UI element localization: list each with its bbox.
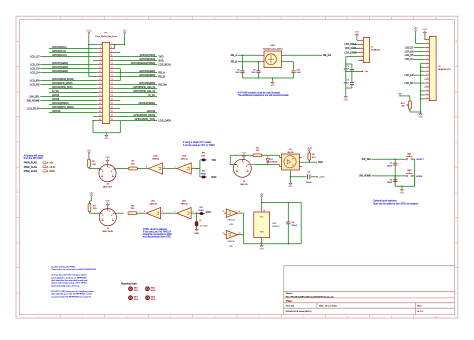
- inverter U1B 74HC14: [148, 163, 162, 174]
- resistor R6 220: [128, 212, 137, 215]
- wire P1 left row pin 31 net GPIO13(PWM1): [49, 104, 97, 106]
- svg-text:13: 13: [426, 86, 428, 88]
- jumper JP1 OUT: [202, 159, 206, 161]
- svg-text:100uF: 100uF: [344, 69, 350, 71]
- svg-text:GND: GND: [288, 186, 293, 188]
- connector J7 body: [363, 37, 369, 62]
- connector J2 pin stubs: [424, 38, 429, 99]
- svg-text:4: 4: [246, 166, 247, 168]
- wire P1 left row pin 11 net GPIO17(GEN0): [40, 64, 97, 66]
- svg-text:GPIO8(SPI0_CE0_N): GPIO8(SPI0_CE0_N): [133, 86, 155, 89]
- svg-text:HD44780 LCD: HD44780 LCD: [438, 69, 451, 71]
- resistor R3 220: [253, 154, 262, 157]
- svg-text:14: 14: [111, 67, 113, 69]
- svg-text:GPIO9(SPI0_MISO): GPIO9(SPI0_MISO): [52, 82, 73, 85]
- ground below U1G: [259, 244, 264, 251]
- svg-text:3: 3: [361, 47, 362, 49]
- connector J2 HD44780 body: [429, 36, 436, 100]
- svg-text:4: 4: [361, 51, 362, 53]
- ground below switches: [400, 188, 405, 195]
- wire R7 to MIDI THRU: [90, 198, 92, 201]
- wire P1 left row pin 7 net GPIO4(GCLK): [40, 56, 97, 58]
- svg-text:7: 7: [263, 240, 264, 242]
- svg-text:5: 5: [100, 51, 101, 53]
- svg-text:23: 23: [99, 87, 101, 89]
- svg-text:14: 14: [263, 210, 265, 212]
- svg-text:GPIO2(SDA1): GPIO2(SDA1): [52, 46, 67, 49]
- wire JP3 down to R8: [196, 213, 198, 221]
- svg-text:If using a single OUT socket: If using a single OUT socket: [183, 141, 211, 144]
- capacitor C8 10nF: [242, 55, 243, 56]
- svg-text:Mounting holes: Mounting holes: [121, 283, 137, 286]
- svg-text:GPIO23(GEN4): GPIO23(GEN4): [139, 70, 155, 73]
- svg-text:RE_Sw: RE_Sw: [158, 83, 167, 86]
- mounting hole MK3: [146, 287, 150, 291]
- wire P1 left row pin 33 net GPIO19(SPI1_MISO): [40, 108, 97, 110]
- svg-text:74HC14: 74HC14: [272, 226, 280, 228]
- svg-text:6: 6: [111, 51, 112, 53]
- svg-text:5: 5: [427, 54, 428, 56]
- resistor R2 220: [128, 167, 137, 170]
- svg-text:LCD_RS: LCD_RS: [404, 83, 414, 85]
- svg-text:36: 36: [111, 111, 113, 113]
- svg-text:SW2: SW2: [407, 153, 411, 155]
- svg-text:40: 40: [111, 119, 113, 121]
- mounting hole MK2: [129, 296, 133, 300]
- svg-text:37: 37: [99, 115, 101, 117]
- svg-text:GND: GND: [104, 138, 109, 140]
- svg-text:GND: GND: [242, 153, 247, 155]
- svg-text:DO NOT USE these pins for anyt: DO NOT USE these pins for anything other…: [51, 290, 94, 293]
- svg-text:LDS_DATA: LDS_DATA: [158, 119, 171, 122]
- svg-text:17: 17: [99, 75, 101, 77]
- ground below SW1: [270, 81, 275, 88]
- svg-text:that identifies the attached b: that identifies the attached board and: [51, 279, 88, 282]
- svg-text:These pins are reserved for HA: These pins are reserved for HAT ID EEPRO…: [51, 268, 96, 271]
- optocoupler U2 6N138: [282, 154, 300, 170]
- svg-text:should be connected to GND: should be connected to GND: [143, 233, 172, 236]
- wire U1B to U1A: [165, 168, 175, 170]
- ground below P1: [104, 134, 109, 141]
- svg-text:74HC14: 74HC14: [180, 203, 188, 205]
- inverter U1F 74HC14 spare: [226, 230, 237, 239]
- svg-text:unconnected if ID EEPROM not r: unconnected if ID EEPROM not required: [51, 295, 91, 298]
- svg-text:100nF: 100nF: [387, 165, 393, 167]
- wire R6 to U1C: [137, 212, 144, 214]
- svg-text:6: 6: [361, 59, 362, 61]
- svg-text:GND: GND: [270, 85, 275, 87]
- svg-text:GPIO6: GPIO6: [52, 98, 60, 101]
- wire +5v to U1G and C4: [261, 198, 263, 208]
- svg-text:LCD_EN: LCD_EN: [404, 75, 413, 77]
- svg-text:RotaryEncoder_Switch: RotaryEncoder_Switch: [263, 47, 282, 50]
- wire R3 to opto input: [262, 154, 280, 156]
- svg-text:5: 5: [102, 171, 103, 173]
- wire +3v branch: [346, 70, 362, 72]
- wire RE_A to SW1: [238, 54, 262, 56]
- wire P1 left row pin 29 net GPIO6: [40, 100, 97, 102]
- svg-text:GPIO5: GPIO5: [52, 94, 60, 97]
- svg-text:GPIO21(SPI1_SCK): GPIO21(SPI1_SCK): [135, 118, 156, 121]
- svg-text:2: 2: [111, 43, 112, 45]
- svg-text:10k: 10k: [401, 106, 404, 108]
- inverter U1D 74HC14: [177, 208, 191, 219]
- wire P1 left row pin 27 net GPIO5: [40, 96, 97, 98]
- svg-text:5: 5: [162, 211, 163, 213]
- svg-text:U1G: U1G: [272, 223, 277, 225]
- svg-text:RE_B: RE_B: [158, 75, 165, 78]
- svg-text:4: 4: [111, 47, 112, 49]
- capacitor C1 100uF: [346, 63, 352, 65]
- svg-text:3: 3: [164, 166, 165, 168]
- ground rail for switches: [395, 185, 415, 187]
- svg-text:GPIO3(SCL1): GPIO3(SCL1): [52, 50, 66, 53]
- power +3.3v at R5: [306, 148, 313, 152]
- power +5v at J2: [414, 28, 419, 32]
- wire GND to J7 pin1: [356, 37, 358, 41]
- svg-text:74HC14: 74HC14: [227, 241, 235, 243]
- svg-text:1: 1: [112, 219, 113, 221]
- svg-text:LCD_D4: LCD_D4: [405, 59, 415, 61]
- svg-text:All power will come: All power will come: [24, 154, 44, 157]
- wire P1 left row pin 19 net GPIO10(SPI0_MOSI): [40, 80, 97, 82]
- wire P1 ground stubs left: [93, 60, 97, 62]
- svg-text:34: 34: [111, 107, 113, 109]
- svg-text:SW_SEL: SW_SEL: [362, 159, 372, 161]
- svg-text:TXD: TXD: [158, 55, 163, 58]
- wire +5v to J2 pin2: [415, 33, 417, 44]
- svg-text:100nF: 100nF: [306, 182, 312, 184]
- svg-text:LCD_RC14: LCD_RC14: [27, 107, 40, 110]
- svg-text:2: 2: [361, 43, 362, 45]
- wire SW3 to ground: [413, 175, 415, 177]
- svg-text:100nF: 100nF: [387, 182, 393, 184]
- wire P1 left row pin 23 net GPIO11(SPI0_SCK): [49, 88, 97, 90]
- ground below R8: [196, 226, 198, 229]
- svg-text:SELECT: SELECT: [416, 159, 425, 161]
- svg-text:74HC14: 74HC14: [227, 220, 235, 222]
- mounting hole MK1: [129, 287, 133, 291]
- wire U1A to TXD jumpers: [193, 168, 200, 170]
- wire P1 left row pin 15 net GPIO22(GEN3): [40, 72, 97, 74]
- svg-text:8: 8: [427, 66, 428, 68]
- svg-text:+3.3v: +3.3v: [306, 148, 313, 150]
- svg-text:28: 28: [111, 95, 113, 97]
- svg-text:SW_HOME: SW_HOME: [359, 176, 371, 178]
- svg-text:12: 12: [223, 211, 225, 213]
- svg-text:24: 24: [111, 87, 113, 89]
- wire GND to J2 pin1: [424, 34, 426, 40]
- svg-text:GPIO26: GPIO26: [52, 110, 61, 113]
- svg-text:LCD_D7: LCD_D7: [30, 55, 40, 58]
- wire MIDI IN pin to R3 top rail: [229, 155, 231, 164]
- svg-text:C2: C2: [346, 80, 348, 82]
- power +5v for R7: [89, 193, 94, 197]
- junction at JP3: [196, 213, 197, 214]
- svg-text:2: 2: [175, 166, 176, 168]
- mounting hole MK4: [146, 296, 150, 300]
- svg-text:RxD: RxD: [318, 161, 323, 164]
- resistor R1 220: [88, 159, 91, 167]
- svg-text:5: 5: [237, 166, 238, 168]
- diode D1 1N4148: [267, 155, 269, 159]
- title block: [284, 266, 455, 315]
- wire P1 ground stubs right: [115, 52, 121, 54]
- ground below J2: [418, 112, 423, 119]
- wire P1 left row pin 13 net GPIO27(GEN2): [40, 68, 97, 70]
- svg-text:THRU circuit is optional.: THRU circuit is optional.: [143, 228, 168, 231]
- wire spare gate outputs: [240, 212, 244, 214]
- svg-text:GPIO12(PWM0): GPIO12(PWM0): [138, 102, 155, 105]
- wire P1 right row pin 28 net ID_SC: [115, 96, 157, 98]
- svg-text:GND: GND: [343, 100, 348, 102]
- svg-text:100nF: 100nF: [292, 225, 298, 227]
- svg-text:RE_B: RE_B: [231, 61, 238, 64]
- svg-text:4: 4: [427, 50, 428, 52]
- svg-text:ID_SD: ID_SD: [52, 90, 59, 93]
- wire U1D to JP3: [193, 212, 198, 214]
- svg-text:LCD_RS: LCD_RS: [30, 83, 40, 86]
- svg-text:MIDI OUT: MIDI OUT: [103, 186, 113, 188]
- wire P1 right row pin 16 net GPIO23(GEN4): [115, 72, 157, 74]
- wire J7 power pin down: [346, 56, 359, 58]
- svg-text:ID_SC: ID_SC: [148, 94, 155, 97]
- svg-text:8: 8: [193, 211, 194, 213]
- svg-text:26: 26: [111, 91, 113, 93]
- svg-text:GPIO20(SPI1_MOSI): GPIO20(SPI1_MOSI): [133, 114, 155, 117]
- svg-text:KiCad E.D.A. kicad (4.0.5): KiCad E.D.A. kicad (4.0.5): [286, 310, 312, 313]
- svg-text:LCD_D6: LCD_D6: [405, 51, 415, 53]
- wire P1 left row pin 3 net GPIO2(SDA1): [49, 48, 97, 50]
- svg-text:5: 5: [103, 215, 104, 217]
- svg-text:21: 21: [99, 83, 101, 85]
- wire P1 left row pin 5 net GPIO3(SCL1): [49, 52, 97, 54]
- capacitor C2 100nF: [351, 71, 353, 82]
- power +3.3v right of C3: [316, 176, 317, 177]
- svg-text:GPIO4(GCLK): GPIO4(GCLK): [52, 54, 67, 57]
- wire SW2 to ground: [413, 158, 415, 160]
- svg-text:GPIO10(SPI0_MOSI): GPIO10(SPI0_MOSI): [52, 78, 74, 81]
- wire MIDI THRU to R6: [115, 212, 124, 214]
- resistor R8 1k: [195, 222, 198, 226]
- svg-text:9: 9: [100, 59, 101, 61]
- ground rail below SW1: [243, 77, 294, 79]
- svg-text:13: 13: [223, 233, 225, 235]
- wire P1 bottom ground loop: [92, 120, 93, 121]
- wire RV1 to ground rail: [409, 109, 411, 112]
- svg-text:30: 30: [111, 99, 113, 101]
- svg-text:74HC14: 74HC14: [180, 159, 188, 161]
- svg-text:GND: GND: [194, 233, 199, 235]
- svg-text:GND: GND: [49, 170, 55, 173]
- svg-text:4: 4: [111, 171, 112, 173]
- svg-text:A0 THRU: A0 THRU: [200, 225, 208, 228]
- svg-text:GPIO18(GEN1)(PWM0): GPIO18(GEN1)(PWM0): [131, 62, 155, 65]
- svg-text:16: 16: [111, 71, 113, 73]
- svg-text:11: 11: [99, 63, 101, 65]
- svg-text:GPIO27(GEN2): GPIO27(GEN2): [52, 66, 68, 69]
- svg-text:31: 31: [99, 103, 101, 105]
- wire R1 to MIDI OUT connector: [88, 155, 90, 159]
- inverter U1C 74HC14: [146, 208, 160, 219]
- jumper JP3 THRU: [200, 212, 204, 214]
- svg-text:PCM5102: PCM5102: [371, 50, 381, 52]
- svg-text:1k: 1k: [199, 220, 201, 222]
- svg-text:it can be used as OUT or THRU: it can be used as OUT or THRU: [183, 144, 215, 147]
- svg-text:U1B: U1B: [154, 156, 159, 158]
- power +5v for R1: [87, 151, 92, 155]
- svg-text:LCD_D6: LCD_D6: [30, 63, 40, 66]
- svg-text:LDS_BCLK: LDS_BCLK: [158, 63, 171, 66]
- svg-text:Date: 15 nov 2012: Date: 15 nov 2012: [319, 305, 338, 308]
- inverter U1E 74HC14 spare: [226, 209, 237, 218]
- wire R2 to U1B: [137, 168, 146, 170]
- svg-text:U1A: U1A: [182, 155, 187, 158]
- svg-text:74HC14: 74HC14: [149, 203, 157, 205]
- capacitor C6 100nF: [394, 176, 396, 180]
- svg-text:GPIO19(SPI1_MISO): GPIO19(SPI1_MISO): [52, 106, 74, 109]
- svg-text:LCD_D5: LCD_D5: [30, 67, 40, 70]
- svg-text:6: 6: [427, 58, 428, 60]
- svg-text:U1E: U1E: [229, 224, 234, 226]
- svg-text:13: 13: [99, 67, 101, 69]
- wire +5v rail right of P1: [124, 35, 126, 45]
- svg-text:RE_A: RE_A: [231, 54, 238, 57]
- svg-text:9: 9: [175, 211, 176, 213]
- svg-text:C1: C1: [346, 66, 348, 68]
- svg-text:GPIO25(GEN6): GPIO25(GEN6): [139, 82, 155, 85]
- resistor R7 220: [88, 203, 91, 211]
- svg-text:19: 19: [99, 79, 101, 81]
- wire P1 right row pin 22 net GPIO25(GEN6): [115, 84, 157, 86]
- svg-text:25: 25: [99, 91, 101, 93]
- svg-text:RXD: RXD: [206, 211, 211, 214]
- svg-text:32: 32: [111, 103, 113, 105]
- svg-text:GPIO7(SPI0_CE1_N): GPIO7(SPI0_CE1_N): [133, 90, 155, 93]
- svg-text:GPIO11(SPI0_SCK): GPIO11(SPI0_SCK): [52, 86, 73, 89]
- svg-text:16: 16: [426, 97, 428, 99]
- svg-text:Rev:: Rev:: [417, 306, 422, 308]
- wire P1 right row pin 38 net GPIO20(SPI1_MOSI): [115, 116, 157, 118]
- svg-text:(and optionally Linux drivers): (and optionally Linux drivers).: [51, 284, 80, 287]
- switch SW2 SELECT: [406, 158, 408, 160]
- svg-text:11: 11: [427, 78, 429, 80]
- wire P1 left row pin 25 net ID_SD: [49, 92, 97, 94]
- wire GND to MIDI OUT shield: [107, 162, 109, 164]
- opto pin stubs: [300, 157, 303, 159]
- svg-text:1: 1: [193, 166, 194, 168]
- wire opto gnd leg: [290, 173, 292, 182]
- wire +3.3v rail left of P1: [88, 35, 90, 77]
- svg-text:PWR_FLAG: PWR_FLAG: [24, 170, 38, 173]
- svg-text:TXD: TXD: [211, 159, 216, 162]
- svg-text:12: 12: [426, 82, 428, 84]
- svg-text:GND: GND: [400, 193, 405, 195]
- svg-text:GPIO13(PWM1): GPIO13(PWM1): [52, 102, 69, 105]
- svg-text:PWR_FLAG: PWR_FLAG: [24, 166, 38, 169]
- svg-text:The additional capacitors are: The additional capacitors are still reco…: [238, 94, 290, 97]
- svg-text:MIDI THRU: MIDI THRU: [102, 231, 113, 233]
- svg-text:GND: GND: [259, 248, 264, 250]
- svg-text:10: 10: [111, 59, 113, 61]
- svg-text:2: 2: [109, 211, 110, 213]
- wire P1 left row pin 21 net GPIO9(SPI0_MISO): [40, 84, 97, 86]
- svg-text:GND: GND: [355, 31, 360, 33]
- svg-text:than attaching an I2C ID EEPRO: than attaching an I2C ID EEPROM. Leave: [51, 293, 93, 296]
- svg-text:4: 4: [111, 215, 112, 217]
- svg-text:3: 3: [102, 219, 103, 221]
- svg-text:GPIO16: GPIO16: [147, 110, 156, 113]
- connector J3 MIDI IN DIN-5: [233, 159, 251, 177]
- svg-text:6: 6: [144, 211, 145, 213]
- svg-text:SW3: SW3: [407, 170, 411, 172]
- IC U1G 74HC14 power unit: [254, 212, 270, 238]
- svg-text:5: 5: [361, 55, 362, 57]
- svg-text:15: 15: [426, 93, 428, 95]
- svg-text:GND: GND: [105, 201, 110, 203]
- svg-text:SW_HOME: SW_HOME: [27, 99, 40, 102]
- wire P1 right row pin 32 net GPIO12(PWM0): [115, 104, 157, 106]
- svg-text:100nF: 100nF: [344, 82, 350, 84]
- capacitor C9 10nF: [258, 61, 259, 62]
- svg-text:27: 27: [99, 95, 101, 97]
- svg-text:GPIO14(TXD0): GPIO14(TXD0): [140, 54, 156, 57]
- svg-text:C5: C5: [390, 163, 392, 165]
- svg-text:GPIO24(GEN5): GPIO24(GEN5): [139, 74, 155, 77]
- svg-text:3: 3: [427, 46, 428, 48]
- svg-text:1: 1: [427, 38, 428, 40]
- wire P1 left row pin 35 net GPIO26: [49, 112, 97, 114]
- svg-text:9: 9: [427, 70, 428, 72]
- wire P1 right row pin 18 net GPIO24(GEN5): [115, 76, 157, 78]
- wire P1 right row pin 12 net GPIO18(GEN1)(PWM0): [115, 64, 157, 66]
- svg-text:+3.3v: +3.3v: [319, 177, 325, 179]
- wire P1 right row pin 40 net GPIO21(SPI1_SCK): [115, 120, 157, 122]
- ground below J7 caps: [343, 95, 348, 102]
- svg-text:GND: GND: [423, 29, 428, 31]
- svg-text:33: 33: [99, 107, 101, 109]
- wire MIDI IN lower to opto: [252, 164, 280, 166]
- svg-text:LCD_D4: LCD_D4: [30, 71, 40, 74]
- svg-text:GPIO17(GEN0): GPIO17(GEN0): [52, 62, 68, 65]
- svg-text:3: 3: [102, 175, 103, 177]
- svg-text:C9: C9: [253, 69, 255, 71]
- svg-text:15: 15: [99, 71, 101, 73]
- inverter U1A 74HC14: [177, 163, 191, 174]
- svg-text:10: 10: [426, 74, 428, 76]
- svg-text:1N4148: 1N4148: [270, 161, 278, 163]
- svg-text:interrogated to look for an EE: interrogated to look for an EEPROM: [51, 276, 86, 279]
- svg-text:allows automagic setup of the: allows automagic setup of the GPIOs: [51, 282, 88, 285]
- rotary encoder SW1 body: [264, 51, 282, 68]
- svg-text:LCD_D7: LCD_D7: [405, 47, 415, 49]
- wire P1 right row pin 26 net GPIO7(SPI0_CE1_N): [115, 92, 157, 94]
- wire to JP1: [199, 160, 201, 169]
- svg-text:C8: C8: [237, 69, 239, 71]
- connector J4 MIDI OUT DIN-5: [99, 165, 116, 182]
- power +5v at U1G: [260, 194, 265, 198]
- svg-text:3: 3: [100, 47, 101, 49]
- wire P1 right row pin 36 net GPIO16: [115, 112, 157, 114]
- svg-text:C10: C10: [297, 69, 300, 71]
- wire SW1 switch pin to RE_Sw: [285, 54, 323, 56]
- wire MIDI OUT to R2: [115, 168, 128, 170]
- wire J2 unused data pins rail: [420, 63, 422, 112]
- svg-text:39: 39: [99, 119, 101, 121]
- svg-text:7: 7: [100, 55, 101, 57]
- svg-text:1: 1: [247, 170, 248, 172]
- svg-text:RE_A: RE_A: [158, 71, 165, 74]
